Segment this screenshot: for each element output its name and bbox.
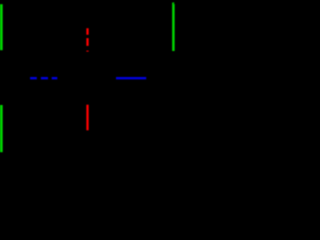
green bar G2 (left bottom vertical) — [0, 105, 3, 152]
green bar G3 top-right notch — [174, 2, 175, 5]
red solid line R2 (bottom vertical) — [86, 105, 88, 131]
blue dashed line B1 (left horizontal, dashed) — [30, 77, 57, 79]
blue solid line B2 (right horizontal) — [116, 77, 146, 79]
green bar G3 (right vertical) — [172, 3, 175, 52]
red dashed line R1 (top vertical, dashed) — [86, 28, 88, 51]
green bar G1 (left top vertical) — [0, 4, 3, 50]
